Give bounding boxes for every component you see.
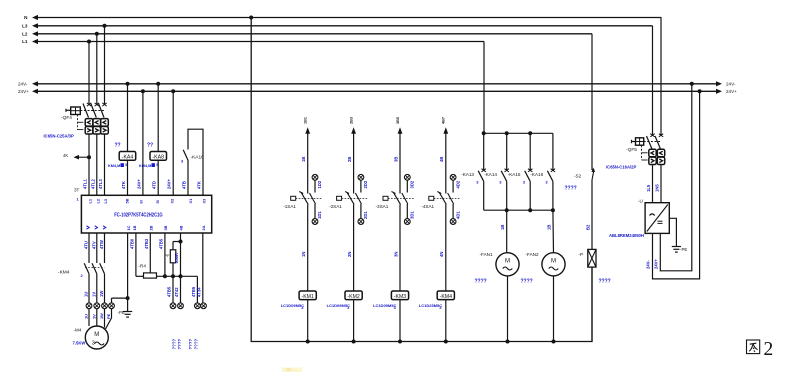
svg-text:????: ???? <box>565 186 577 192</box>
svg-text:3D1: 3D1 <box>410 211 415 219</box>
svg-text:24V+: 24V+ <box>726 89 737 94</box>
svg-text:1L5: 1L5 <box>646 184 651 192</box>
svg-text:X1: X1 <box>188 198 193 204</box>
svg-text:M: M <box>94 332 99 338</box>
svg-text:4TW: 4TW <box>99 240 104 249</box>
svg-text:-KA16: -KA16 <box>530 172 543 177</box>
svg-text:4TU: 4TU <box>84 241 89 249</box>
svg-text:3: 3 <box>156 163 158 167</box>
svg-text:4T34: 4T34 <box>196 287 201 297</box>
svg-text:-QF5: -QF5 <box>626 147 637 153</box>
svg-text:1D1: 1D1 <box>317 211 322 219</box>
svg-text:X3: X3 <box>202 198 207 204</box>
svg-text:3B: 3B <box>393 157 398 162</box>
svg-text:3B: 3B <box>163 225 168 230</box>
svg-text:3N: 3N <box>393 252 398 257</box>
svg-text:4TB5: 4TB5 <box>167 286 172 297</box>
svg-text:1U: 1U <box>84 314 89 319</box>
svg-text:3T: 3T <box>74 188 80 193</box>
svg-text:1V: 1V <box>91 292 96 297</box>
svg-text:2N: 2N <box>347 252 352 257</box>
svg-text:1U: 1U <box>84 292 89 297</box>
svg-text:L2: L2 <box>22 32 28 37</box>
svg-text:B2: B2 <box>585 224 590 230</box>
svg-text:24V+: 24V+ <box>18 89 29 94</box>
svg-text:3B5: 3B5 <box>396 117 400 124</box>
svg-text:-PE: -PE <box>680 247 687 252</box>
svg-text:1W: 1W <box>99 291 104 297</box>
svg-text:4TB5: 4TB5 <box>158 238 163 249</box>
svg-text:-FAN1: -FAN1 <box>480 252 493 257</box>
svg-text:-KA15: -KA15 <box>508 172 521 177</box>
svg-text:-KM2: -KM2 <box>347 294 360 300</box>
svg-text:4B: 4B <box>439 157 444 162</box>
svg-text:-1SA1: -1SA1 <box>283 204 296 209</box>
svg-text:FC-102P7K5T4C2H2C1G: FC-102P7K5T4C2H2C1G <box>114 213 163 219</box>
svg-text:1C: 1C <box>126 225 131 230</box>
svg-text:-KM1: -KM1 <box>301 294 314 300</box>
svg-text:4N: 4N <box>439 252 444 257</box>
svg-text:-KA13: -KA13 <box>461 172 474 177</box>
svg-text:-4SA1: -4SA1 <box>421 204 434 209</box>
svg-text:????: ???? <box>172 338 177 349</box>
svg-text:4TD: 4TD <box>152 181 157 189</box>
svg-text:??: ?? <box>147 143 153 149</box>
svg-text:4TV: 4TV <box>91 241 96 249</box>
svg-text:iC65N-C16A/2P: iC65N-C16A/2P <box>606 165 636 170</box>
svg-text:24V-: 24V- <box>18 82 28 87</box>
svg-text:4T42: 4T42 <box>174 287 179 297</box>
svg-text:-KM4: -KM4 <box>440 294 453 300</box>
svg-text:-FAN2: -FAN2 <box>526 252 539 257</box>
svg-text:????: ???? <box>194 338 199 349</box>
svg-text:????: ???? <box>475 278 487 284</box>
svg-text:4B: 4B <box>179 225 184 230</box>
svg-text:24V+: 24V+ <box>136 179 141 189</box>
svg-text:2: 2 <box>764 339 774 360</box>
svg-text:4TL1: 4TL1 <box>83 179 88 189</box>
svg-text:-PE: -PE <box>118 310 125 315</box>
svg-text:-R4: -R4 <box>139 264 147 269</box>
svg-text:1W: 1W <box>99 313 104 319</box>
svg-text:4D2: 4D2 <box>455 180 460 188</box>
svg-text:4TB3: 4TB3 <box>144 238 149 249</box>
svg-text:5I: 5I <box>155 200 160 203</box>
svg-text:24V-: 24V- <box>646 260 651 269</box>
svg-text:-3SA1: -3SA1 <box>376 204 389 209</box>
svg-text:2A: 2A <box>201 225 206 230</box>
svg-text:1B1: 1B1 <box>304 117 308 124</box>
svg-text:-KM3: -KM3 <box>394 294 407 300</box>
svg-text:1B: 1B <box>301 157 306 162</box>
svg-text:230R: 230R <box>174 253 179 263</box>
svg-text:4D1: 4D1 <box>455 211 460 219</box>
svg-text:????: ???? <box>177 338 182 349</box>
svg-text:2D2: 2D2 <box>363 180 368 188</box>
svg-text:X2: X2 <box>170 198 175 204</box>
svg-text:-KM4: -KM4 <box>58 270 70 276</box>
svg-text:KM4,M2: KM4,M2 <box>108 164 122 168</box>
svg-text:M: M <box>551 259 556 265</box>
svg-text:1B: 1B <box>132 225 137 230</box>
svg-text:????: ???? <box>521 278 533 284</box>
svg-text:-KA8: -KA8 <box>152 155 164 161</box>
svg-text:4TK: 4TK <box>121 181 126 189</box>
svg-text:L1: L1 <box>22 39 28 44</box>
svg-text:-KA16: -KA16 <box>191 154 205 160</box>
svg-text:24V-: 24V- <box>726 82 736 87</box>
svg-text:1V: 1V <box>91 314 96 319</box>
svg-text:L3: L3 <box>22 24 28 29</box>
svg-text:7.5KW: 7.5KW <box>73 341 86 346</box>
svg-text:M: M <box>505 259 510 265</box>
svg-text:PF: PF <box>165 253 171 258</box>
svg-text:3: 3 <box>92 341 95 347</box>
svg-text:-KA14: -KA14 <box>484 172 497 177</box>
svg-text:24V+: 24V+ <box>167 179 172 189</box>
svg-text:2D1: 2D1 <box>363 211 368 219</box>
svg-text:3D2: 3D2 <box>410 180 415 188</box>
svg-text:2B: 2B <box>347 157 352 162</box>
svg-text:??: ?? <box>115 143 121 149</box>
svg-text:1N5: 1N5 <box>655 184 660 192</box>
svg-text:-P: -P <box>579 252 584 257</box>
svg-text:5B: 5B <box>125 198 130 203</box>
svg-text:6I: 6I <box>138 200 143 203</box>
svg-text:4TL3: 4TL3 <box>98 179 103 189</box>
svg-text:4TK: 4TK <box>197 181 202 189</box>
svg-text:1B: 1B <box>546 225 551 230</box>
svg-text:-QF4: -QF4 <box>61 115 72 121</box>
svg-text:1N: 1N <box>301 252 306 257</box>
svg-text:????: ???? <box>188 338 193 349</box>
svg-text:PE: PE <box>106 313 111 319</box>
svg-text:ABL8REM24050H: ABL8REM24050H <box>609 233 644 238</box>
svg-text:4B7: 4B7 <box>442 117 446 124</box>
svg-text:-2SA1: -2SA1 <box>329 204 342 209</box>
svg-text:1D2: 1D2 <box>317 180 322 188</box>
svg-text:24V+: 24V+ <box>653 259 658 269</box>
svg-text:-S2: -S2 <box>574 174 582 179</box>
svg-text:4TL2: 4TL2 <box>90 179 95 189</box>
svg-text:????: ???? <box>599 278 611 284</box>
svg-text:3: 3 <box>125 163 127 167</box>
svg-text:-M4: -M4 <box>74 328 82 333</box>
svg-text:1B: 1B <box>500 225 505 230</box>
svg-text:4K: 4K <box>63 153 68 158</box>
svg-text:-KA4: -KA4 <box>122 155 134 161</box>
svg-text:2B: 2B <box>148 225 153 230</box>
svg-text:iC65N-C25A/3P: iC65N-C25A/3P <box>44 134 74 139</box>
svg-text:4TB: 4TB <box>182 181 187 189</box>
svg-text:4TB0: 4TB0 <box>129 238 134 249</box>
svg-text:KM4,M2: KM4,M2 <box>139 164 153 168</box>
svg-text:2B3: 2B3 <box>349 117 353 124</box>
svg-text:4TB5: 4TB5 <box>191 286 196 297</box>
svg-text:-U: -U <box>638 199 643 204</box>
